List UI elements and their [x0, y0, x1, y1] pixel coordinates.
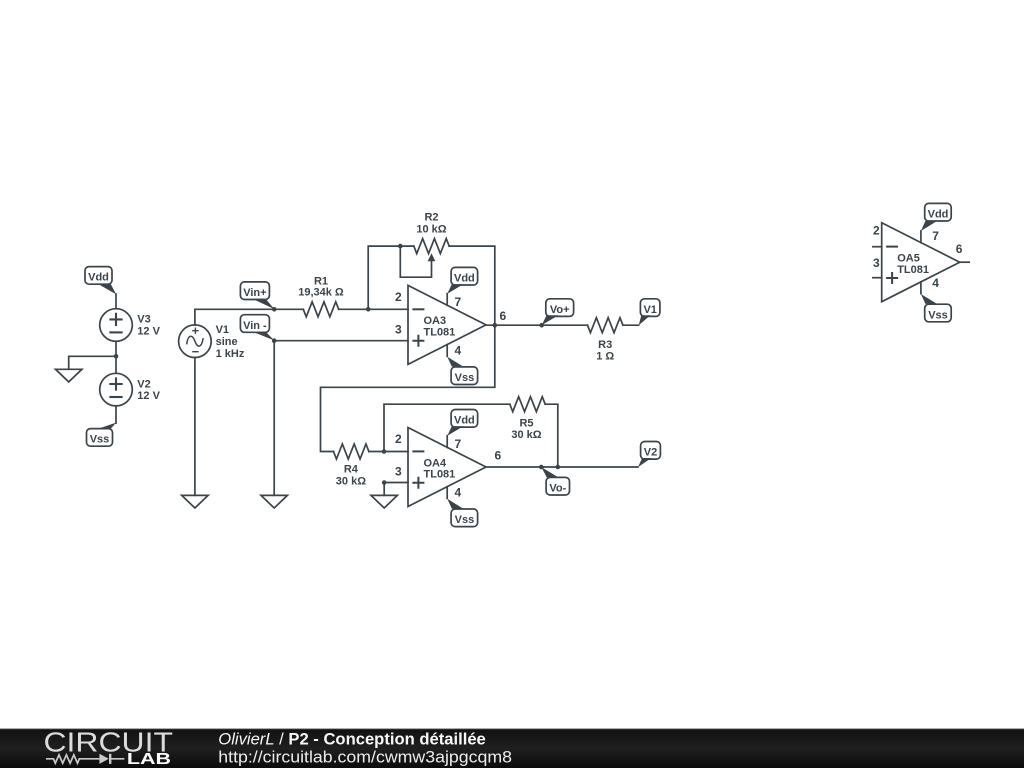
- power flag Vss OA5: [921, 294, 951, 322]
- op-amp OA5: [873, 223, 969, 302]
- label R3 1 Ohm: [596, 339, 614, 362]
- resistor R1: [303, 302, 338, 317]
- net flag Vin+: [240, 282, 274, 309]
- junction pin3 gnd: [382, 480, 387, 485]
- label R5 30 kOhm: [511, 417, 541, 441]
- power flag Vdd OA4: [447, 410, 477, 436]
- wire OA3 output: [486, 324, 588, 326]
- footer bar: [0, 729, 1024, 768]
- net flag Vin-: [240, 315, 274, 341]
- junction feedback: [366, 307, 371, 312]
- junction Vin-: [272, 338, 277, 343]
- wire Vin- down: [273, 341, 275, 496]
- wire V1 top to R1: [195, 309, 303, 325]
- label V2 12 V: [137, 378, 160, 402]
- wire R3 to V1 flag: [623, 324, 639, 326]
- ground: [182, 495, 208, 508]
- junction Vin+: [272, 307, 277, 312]
- wire V1 bottom to ground: [194, 358, 196, 496]
- power flag Vdd OA5: [921, 203, 951, 231]
- power flag Vdd V3: [85, 267, 116, 295]
- wire: [115, 406, 117, 423]
- wire R1 to pin2: [339, 308, 408, 310]
- net flag Vo-: [541, 467, 569, 495]
- net flag V1: [639, 299, 660, 325]
- resistor R4: [334, 444, 369, 459]
- potentiometer R2: [400, 239, 449, 278]
- svg-text:LAB: LAB: [127, 751, 171, 768]
- wire R2 right down to output: [449, 246, 495, 325]
- wire Vin- row: [274, 340, 408, 342]
- junction Vo+: [539, 323, 544, 328]
- junction R5 output: [556, 465, 561, 470]
- voltage source V3: [100, 309, 133, 342]
- voltage source V2: [100, 373, 133, 406]
- junction R4 R5: [382, 449, 387, 454]
- logo resistor-diode glyph: [46, 754, 124, 764]
- label V1 sine 1 kHz: [216, 324, 245, 360]
- label V3 12 V: [137, 314, 160, 338]
- svg-text:http://circuitlab.com/cwmw3ajp: http://circuitlab.com/cwmw3ajpgcqm8: [218, 749, 512, 767]
- net flag V2: [638, 442, 660, 468]
- wire R5 branch: [384, 404, 510, 451]
- net flag Vo+: [542, 299, 574, 325]
- power flag Vss OA3: [447, 357, 477, 385]
- power flag Vss OA4: [447, 499, 477, 527]
- label R2 10 kOhm: [416, 212, 446, 236]
- wire OA4 output: [486, 466, 638, 468]
- voltage source V1 sine: [179, 325, 212, 358]
- wire R4 to pin2 OA4: [369, 451, 408, 453]
- wire OA3 out to R4: [321, 325, 495, 451]
- label R1 19,34k: [298, 276, 344, 299]
- wire to ground: [69, 356, 116, 369]
- ground: [56, 369, 82, 382]
- junction OA3 output: [493, 323, 498, 328]
- label R4 30 kOhm: [336, 464, 366, 488]
- resistor R5: [510, 397, 545, 412]
- power flag Vss V2: [87, 423, 117, 447]
- ground: [261, 495, 287, 508]
- wire feedback left: [368, 246, 414, 309]
- power flag Vdd OA3: [447, 267, 477, 293]
- svg-text:OlivierL / P2 - Conception dét: OlivierL / P2 - Conception détaillée: [218, 729, 486, 748]
- resistor R3: [588, 318, 623, 333]
- wire: [115, 294, 117, 309]
- junction: [114, 354, 119, 359]
- wire R5 right to output: [545, 404, 558, 467]
- wire: [115, 341, 117, 373]
- junction wiper: [398, 244, 403, 249]
- junction Vo-: [539, 465, 544, 470]
- ground OA4: [371, 495, 397, 508]
- wire pin3 OA4 to ground: [384, 483, 408, 496]
- op-amp OA3: [395, 285, 486, 364]
- op-amp OA4: [395, 428, 486, 507]
